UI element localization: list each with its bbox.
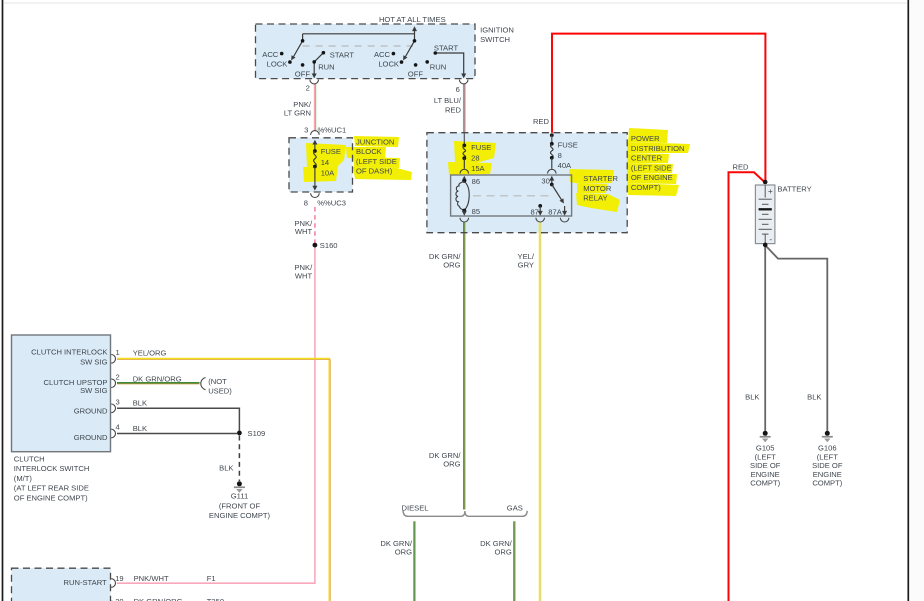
svg-text:WHT: WHT (295, 227, 313, 236)
svg-text:%%UC3: %%UC3 (317, 199, 346, 208)
svg-text:(LEFT: (LEFT (817, 452, 838, 461)
relay internal dashed link (473, 195, 553, 197)
junction block connector C3 (311, 193, 320, 197)
svg-text:(AT LEFT REAR SIDE: (AT LEFT REAR SIDE (14, 484, 89, 493)
ignition right arm (406, 41, 415, 57)
svg-text:S160: S160 (320, 241, 338, 250)
svg-text:20: 20 (115, 597, 123, 601)
svg-text:3: 3 (116, 397, 120, 406)
svg-text:BLK: BLK (219, 463, 233, 472)
svg-text:8: 8 (558, 151, 562, 160)
svg-text:87: 87 (530, 208, 538, 217)
diesel/gas split brace (403, 511, 527, 517)
clutch pin 3 connector (111, 404, 115, 413)
splice S160 (313, 243, 318, 248)
svg-text:(LEFT: (LEFT (755, 452, 776, 461)
svg-text:BLK: BLK (745, 393, 759, 402)
svg-text:BLOCK: BLOCK (356, 147, 382, 156)
svg-text:CLUTCH: CLUTCH (14, 454, 45, 463)
svg-text:RELAY: RELAY (583, 194, 607, 203)
svg-text:2: 2 (306, 84, 310, 93)
wire BLK battery to G105 (764, 247, 766, 431)
svg-text:BLK: BLK (807, 393, 821, 402)
svg-text:PNK/WHT: PNK/WHT (134, 574, 169, 583)
fuse 14 output arrow (314, 167, 316, 188)
svg-text:RED: RED (533, 117, 550, 126)
wire BLK clutch pin 3 (117, 408, 239, 430)
run-start pin 19 connector (111, 579, 115, 588)
highlight power distribution center label (628, 128, 668, 143)
svg-text:(LEFT SIDE: (LEFT SIDE (356, 157, 397, 166)
relay 30 dot (550, 183, 554, 187)
svg-text:ACC: ACC (262, 50, 279, 59)
svg-text:ACC: ACC (374, 50, 391, 59)
wire BLK clutch pin 4 (117, 433, 237, 435)
svg-text:ENGINE COMPT): ENGINE COMPT) (209, 511, 271, 520)
svg-text:ENGINE: ENGINE (813, 470, 842, 479)
svg-text:GRY: GRY (518, 261, 534, 270)
svg-text:SIDE OF: SIDE OF (812, 461, 843, 470)
svg-text:OFF: OFF (295, 69, 311, 78)
PDC fuse 28 feed (463, 133, 465, 146)
svg-text:COMPT): COMPT) (631, 183, 661, 192)
wire PNK/WHT S160 to run-start (117, 248, 315, 584)
svg-text:RED: RED (733, 163, 750, 172)
svg-text:(LEFT SIDE: (LEFT SIDE (631, 163, 672, 172)
clutch interlock switch box border (12, 335, 111, 452)
ground G105 (763, 431, 768, 436)
fuse F14 (313, 149, 317, 153)
svg-text:INTERLOCK SWITCH: INTERLOCK SWITCH (14, 464, 90, 473)
clutch interlock switch box fill (12, 335, 111, 452)
svg-text:FUSE: FUSE (558, 141, 578, 150)
relay 87 pin (538, 204, 542, 208)
relay 87A pin (564, 206, 566, 212)
clutch pin 1 connector (111, 355, 115, 364)
wire YEL/ORG clutch pin 1 (117, 359, 330, 601)
junction block box fill (289, 138, 353, 192)
svg-text:14: 14 (321, 158, 329, 167)
ignition left arm (294, 41, 303, 57)
relay switch arm (552, 185, 562, 200)
svg-text:2: 2 (116, 373, 120, 382)
svg-text:FUSE: FUSE (471, 143, 491, 152)
svg-text:WHT: WHT (295, 271, 313, 280)
svg-text:6: 6 (456, 85, 460, 94)
svg-text:SWITCH: SWITCH (480, 35, 510, 44)
svg-text:LOCK: LOCK (378, 60, 399, 69)
wire DK GRN/ORG diesel branch (414, 521, 415, 601)
svg-text:HOT AT ALL TIMES: HOT AT ALL TIMES (379, 15, 446, 24)
svg-text:RUN: RUN (430, 63, 446, 72)
highlight fuse 14 (306, 143, 346, 168)
svg-text:ORG: ORG (443, 261, 460, 270)
svg-text:OFF: OFF (408, 69, 424, 78)
power distribution center box fill (427, 133, 627, 233)
svg-text:LT GRN: LT GRN (284, 108, 311, 117)
ignition switch box border (256, 24, 476, 79)
starter motor relay box (451, 175, 572, 216)
relay 86 entry arrow (463, 179, 465, 182)
svg-text:40A: 40A (558, 161, 572, 170)
relay 85 exit arrow (463, 211, 465, 213)
svg-text:G111: G111 (231, 492, 248, 501)
battery B1 (763, 180, 768, 185)
ground G111 (237, 481, 242, 486)
svg-text:RED: RED (445, 105, 462, 114)
wire BLK dashed S109 to G111 (238, 436, 240, 482)
svg-text:START: START (434, 43, 459, 52)
svg-text:GROUND: GROUND (74, 406, 108, 415)
fuse 14 feed arrow (314, 143, 316, 152)
svg-text:30: 30 (541, 177, 549, 186)
relay 85 exit arc (460, 218, 469, 222)
relay coil (462, 179, 466, 183)
svg-text:%%UC1: %%UC1 (318, 126, 347, 135)
fuse F8 (550, 142, 554, 146)
svg-text:COMPT): COMPT) (812, 479, 842, 488)
wire BLK battery to G106 (766, 246, 828, 431)
svg-text:10A: 10A (321, 168, 335, 177)
ignition mechanical link (303, 45, 413, 47)
svg-text:BLK: BLK (133, 424, 147, 433)
svg-text:(M/T): (M/T) (14, 474, 33, 483)
svg-text:(NOT: (NOT (208, 377, 227, 386)
svg-text:JUNCTION: JUNCTION (356, 138, 394, 147)
svg-text:SW SIG: SW SIG (80, 386, 108, 395)
wire PNK/WHT dashed (314, 207, 316, 243)
power distribution center box border (427, 133, 627, 233)
clutch pin 4 connector (111, 429, 115, 438)
svg-text:DISTRIBUTION: DISTRIBUTION (631, 144, 685, 153)
svg-text:+: + (768, 186, 773, 196)
svg-text:87A: 87A (548, 208, 562, 217)
svg-text:IGNITION: IGNITION (480, 25, 514, 34)
connector arc wire 2 (310, 80, 319, 84)
svg-text:LOCK: LOCK (267, 60, 288, 69)
svg-text:GAS: GAS (507, 503, 523, 512)
svg-text:F1: F1 (207, 574, 216, 583)
svg-text:POWER: POWER (631, 134, 660, 143)
ignition switch hot feed arrow (414, 29, 416, 41)
ignition switch box fill (256, 24, 476, 79)
PDC fuse 8 entry dot (550, 133, 554, 137)
relay 86 entry arc (460, 169, 469, 173)
wire DK GRN/ORG gas branch (514, 521, 515, 601)
splice S109 (237, 431, 242, 436)
svg-text:86: 86 (472, 177, 480, 186)
run-start box fill (12, 568, 111, 601)
svg-text:DK GRN/ORG: DK GRN/ORG (134, 597, 183, 601)
svg-text:3: 3 (304, 126, 308, 135)
svg-text:YEL/ORG: YEL/ORG (133, 349, 167, 358)
highlight junction block label (354, 136, 399, 147)
svg-text:RUN-START: RUN-START (64, 578, 108, 587)
junction block box border (289, 138, 353, 192)
svg-text:START: START (330, 51, 355, 60)
svg-text:8: 8 (304, 199, 308, 208)
svg-text:(FRONT OF: (FRONT OF (219, 501, 261, 510)
svg-text:SW SIG: SW SIG (80, 357, 108, 366)
svg-text:OF ENGINE: OF ENGINE (631, 173, 673, 182)
fuse F28 (462, 144, 466, 148)
svg-text:CENTER: CENTER (631, 154, 663, 163)
svg-text:15A: 15A (471, 164, 485, 173)
svg-text:85: 85 (472, 207, 480, 216)
ignition wire 6 output (435, 53, 463, 75)
svg-text:1: 1 (116, 348, 120, 357)
wire 6 LT BLU/RED (464, 84, 465, 133)
highlight fuse 28 15A (454, 141, 496, 163)
wire DK GRN/ORG clutch pin 2 (117, 383, 200, 384)
connector arc wire 6 (459, 80, 468, 84)
not used bracket (201, 378, 206, 390)
svg-text:SIDE OF: SIDE OF (750, 461, 781, 470)
svg-text:OF ENGINE COMPT): OF ENGINE COMPT) (14, 494, 88, 503)
svg-text:DIESEL: DIESEL (402, 503, 429, 512)
svg-text:ORG: ORG (395, 548, 412, 557)
wire DK GRN/ORG relay 85 down (464, 222, 465, 510)
svg-text:S109: S109 (248, 429, 266, 438)
ignition switch position dots (301, 39, 305, 43)
ignition left start-run link (314, 53, 323, 62)
svg-text:ENGINE: ENGINE (751, 470, 780, 479)
svg-text:CLUTCH INTERLOCK: CLUTCH INTERLOCK (31, 348, 107, 357)
svg-text:19: 19 (115, 574, 123, 583)
run-start box border (12, 568, 111, 601)
svg-text:G106: G106 (818, 444, 837, 453)
wire RED ignition feed to battery (552, 34, 765, 181)
wire 2 PNK/LT GRN (314, 84, 315, 131)
svg-text:LT BLU/: LT BLU/ (434, 96, 462, 105)
svg-text:ORG: ORG (443, 460, 460, 469)
svg-text:DK GRN/ORG: DK GRN/ORG (133, 374, 182, 383)
svg-text:STARTER: STARTER (583, 174, 618, 183)
relay 30 entry arrow (551, 179, 553, 185)
wire RED battery down feed (729, 172, 765, 601)
wire YEL/GRY relay 87 down (540, 222, 541, 601)
svg-text:28: 28 (471, 153, 479, 162)
svg-text:G105: G105 (756, 444, 775, 453)
svg-text:GROUND: GROUND (74, 433, 108, 442)
svg-text:T350: T350 (207, 597, 224, 601)
svg-text:BLK: BLK (133, 399, 147, 408)
svg-text:-: - (769, 234, 772, 244)
relay 30 entry arc (548, 169, 557, 173)
svg-text:FUSE: FUSE (321, 147, 341, 156)
ground G106 (825, 431, 830, 436)
svg-text:RUN: RUN (318, 63, 334, 72)
clutch pin 2 connector (111, 379, 115, 388)
svg-text:4: 4 (116, 423, 120, 432)
highlight starter motor relay label (569, 169, 614, 184)
svg-text:BATTERY: BATTERY (777, 185, 811, 194)
ignition switch bus wire (303, 33, 415, 35)
svg-text:USED): USED) (208, 387, 232, 396)
svg-text:MOTOR: MOTOR (583, 184, 612, 193)
ignition wire 2 output (313, 62, 315, 75)
svg-text:ORG: ORG (494, 548, 511, 557)
svg-text:OF DASH): OF DASH) (356, 167, 393, 176)
svg-text:COMPT): COMPT) (750, 479, 780, 488)
